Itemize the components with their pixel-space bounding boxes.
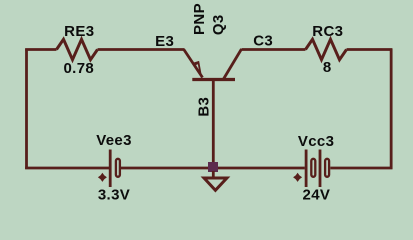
wire: RC3 to right corner (347, 48, 393, 51)
transistor Q3 base lead (212, 80, 215, 164)
wire: top-left horizontal to RE3 (25, 48, 56, 51)
battery Vcc3 long plate 2 (319, 150, 322, 188)
svg-text:RC3: RC3 (312, 23, 343, 40)
svg-text:8: 8 (323, 59, 332, 76)
svg-text:3.3V: 3.3V (98, 187, 130, 204)
battery Vcc3 short plate 1 (311, 159, 315, 177)
wire: left vertical (25, 49, 28, 170)
battery Vcc3 long plate 1 (305, 150, 308, 188)
svg-text:Vee3: Vee3 (96, 132, 132, 149)
svg-text:24V: 24V (303, 186, 331, 203)
svg-text:Q3: Q3 (210, 14, 227, 35)
svg-text:C3: C3 (253, 33, 273, 50)
wire: bottom right to Vcc3 (330, 167, 392, 170)
battery Vcc3 short plate 2 (325, 159, 329, 177)
svg-text:Vcc3: Vcc3 (298, 133, 334, 150)
wire: bottom left to Vee3 (25, 167, 109, 170)
ground stub (212, 171, 215, 178)
wire: RE3 to emitter (98, 48, 185, 51)
svg-text:RE3: RE3 (64, 23, 94, 40)
resistor RE3 (57, 39, 98, 59)
transistor Q3 emitter arrow (PNP) (193, 61, 202, 76)
battery Vcc3 plus marker (293, 173, 302, 182)
battery Vee3 long plate (109, 150, 112, 188)
transistor Q3 collector diagonal (224, 49, 242, 79)
junction node (square) (208, 162, 218, 172)
wire: right vertical (390, 49, 393, 170)
battery Vee3 plus marker (98, 173, 107, 182)
svg-text:0.78: 0.78 (63, 60, 94, 77)
resistor RC3 (306, 39, 347, 59)
svg-text:E3: E3 (155, 33, 174, 50)
battery Vee3 short plate (116, 159, 120, 177)
wire: bottom middle between batteries (121, 167, 305, 170)
svg-text:B3: B3 (196, 97, 213, 117)
svg-text:PNP: PNP (191, 3, 208, 35)
transistor Q3 base bar (192, 78, 235, 81)
transistor Q3 emitter diagonal (184, 49, 203, 78)
ground (204, 178, 227, 190)
wire: collector to RC3 (242, 48, 306, 51)
